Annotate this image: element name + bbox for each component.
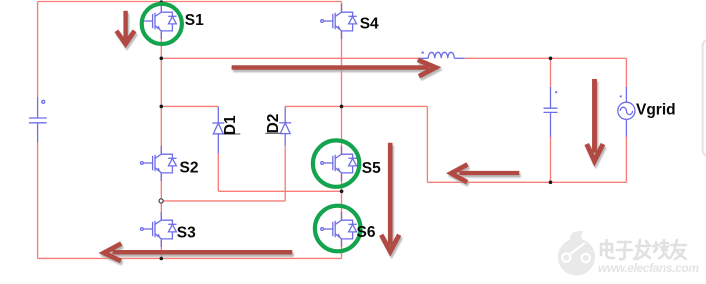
svg-text:S1: S1: [185, 12, 204, 29]
svg-text:S3: S3: [177, 225, 196, 242]
svg-text:S2: S2: [180, 160, 199, 177]
svg-text:S6: S6: [357, 224, 376, 241]
svg-text:D2: D2: [265, 114, 282, 134]
svg-text:S4: S4: [360, 15, 379, 32]
svg-text:Vgrid: Vgrid: [636, 102, 676, 119]
svg-text:D1: D1: [222, 115, 239, 135]
svg-text:www.elecfans.com: www.elecfans.com: [598, 261, 699, 275]
svg-text:S5: S5: [362, 160, 381, 177]
